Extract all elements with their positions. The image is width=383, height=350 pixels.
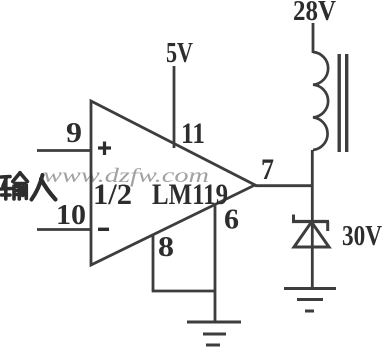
ground symbol (left, comparator) xyxy=(187,322,241,345)
svg-text:5V: 5V xyxy=(166,38,193,69)
wire input pin 10 xyxy=(37,228,92,231)
wire pin 8 to pin 6 junction xyxy=(152,290,216,293)
svg-text:30V: 30V xyxy=(342,221,382,252)
wire output pin 7 to node xyxy=(255,184,313,187)
svg-text:6: 6 xyxy=(224,204,239,236)
刂 xyxy=(21,187,25,196)
svg-text:7: 7 xyxy=(261,153,274,186)
svg-text:28V: 28V xyxy=(293,0,336,27)
入 xyxy=(32,175,43,200)
zener diode VD 30V xyxy=(292,215,329,248)
wire 28V to coil xyxy=(312,23,315,53)
wire input pin 9 xyxy=(37,149,92,152)
svg-text:11: 11 xyxy=(181,117,205,150)
车 radical xyxy=(1,175,10,179)
wire pin 6 to ground xyxy=(214,205,217,322)
svg-text:9: 9 xyxy=(66,118,82,149)
svg-text:1/2: 1/2 xyxy=(93,178,132,211)
俞 roof xyxy=(13,173,20,182)
op-amp minus input symbol xyxy=(98,228,109,231)
svg-text:10: 10 xyxy=(56,200,86,231)
label 输入 (input) xyxy=(1,173,56,200)
svg-text:LM119: LM119 xyxy=(152,178,228,211)
inductor L1 relay coil xyxy=(313,52,328,150)
op-amp U1 (1/2 LM119) triangle xyxy=(91,101,255,265)
inductor core lines xyxy=(339,54,347,152)
svg-text:8: 8 xyxy=(158,232,174,263)
op-amp plus input symbol xyxy=(98,142,111,156)
wire pin 8 down xyxy=(152,235,155,291)
wire zener to ground xyxy=(311,247,314,288)
value label 1/2 LM119 xyxy=(93,178,228,211)
wire coil to node and zener xyxy=(311,150,314,248)
ground symbol (right, zener) xyxy=(284,289,336,312)
月 box xyxy=(14,187,19,200)
wire pin 11 to 5V xyxy=(173,66,176,148)
